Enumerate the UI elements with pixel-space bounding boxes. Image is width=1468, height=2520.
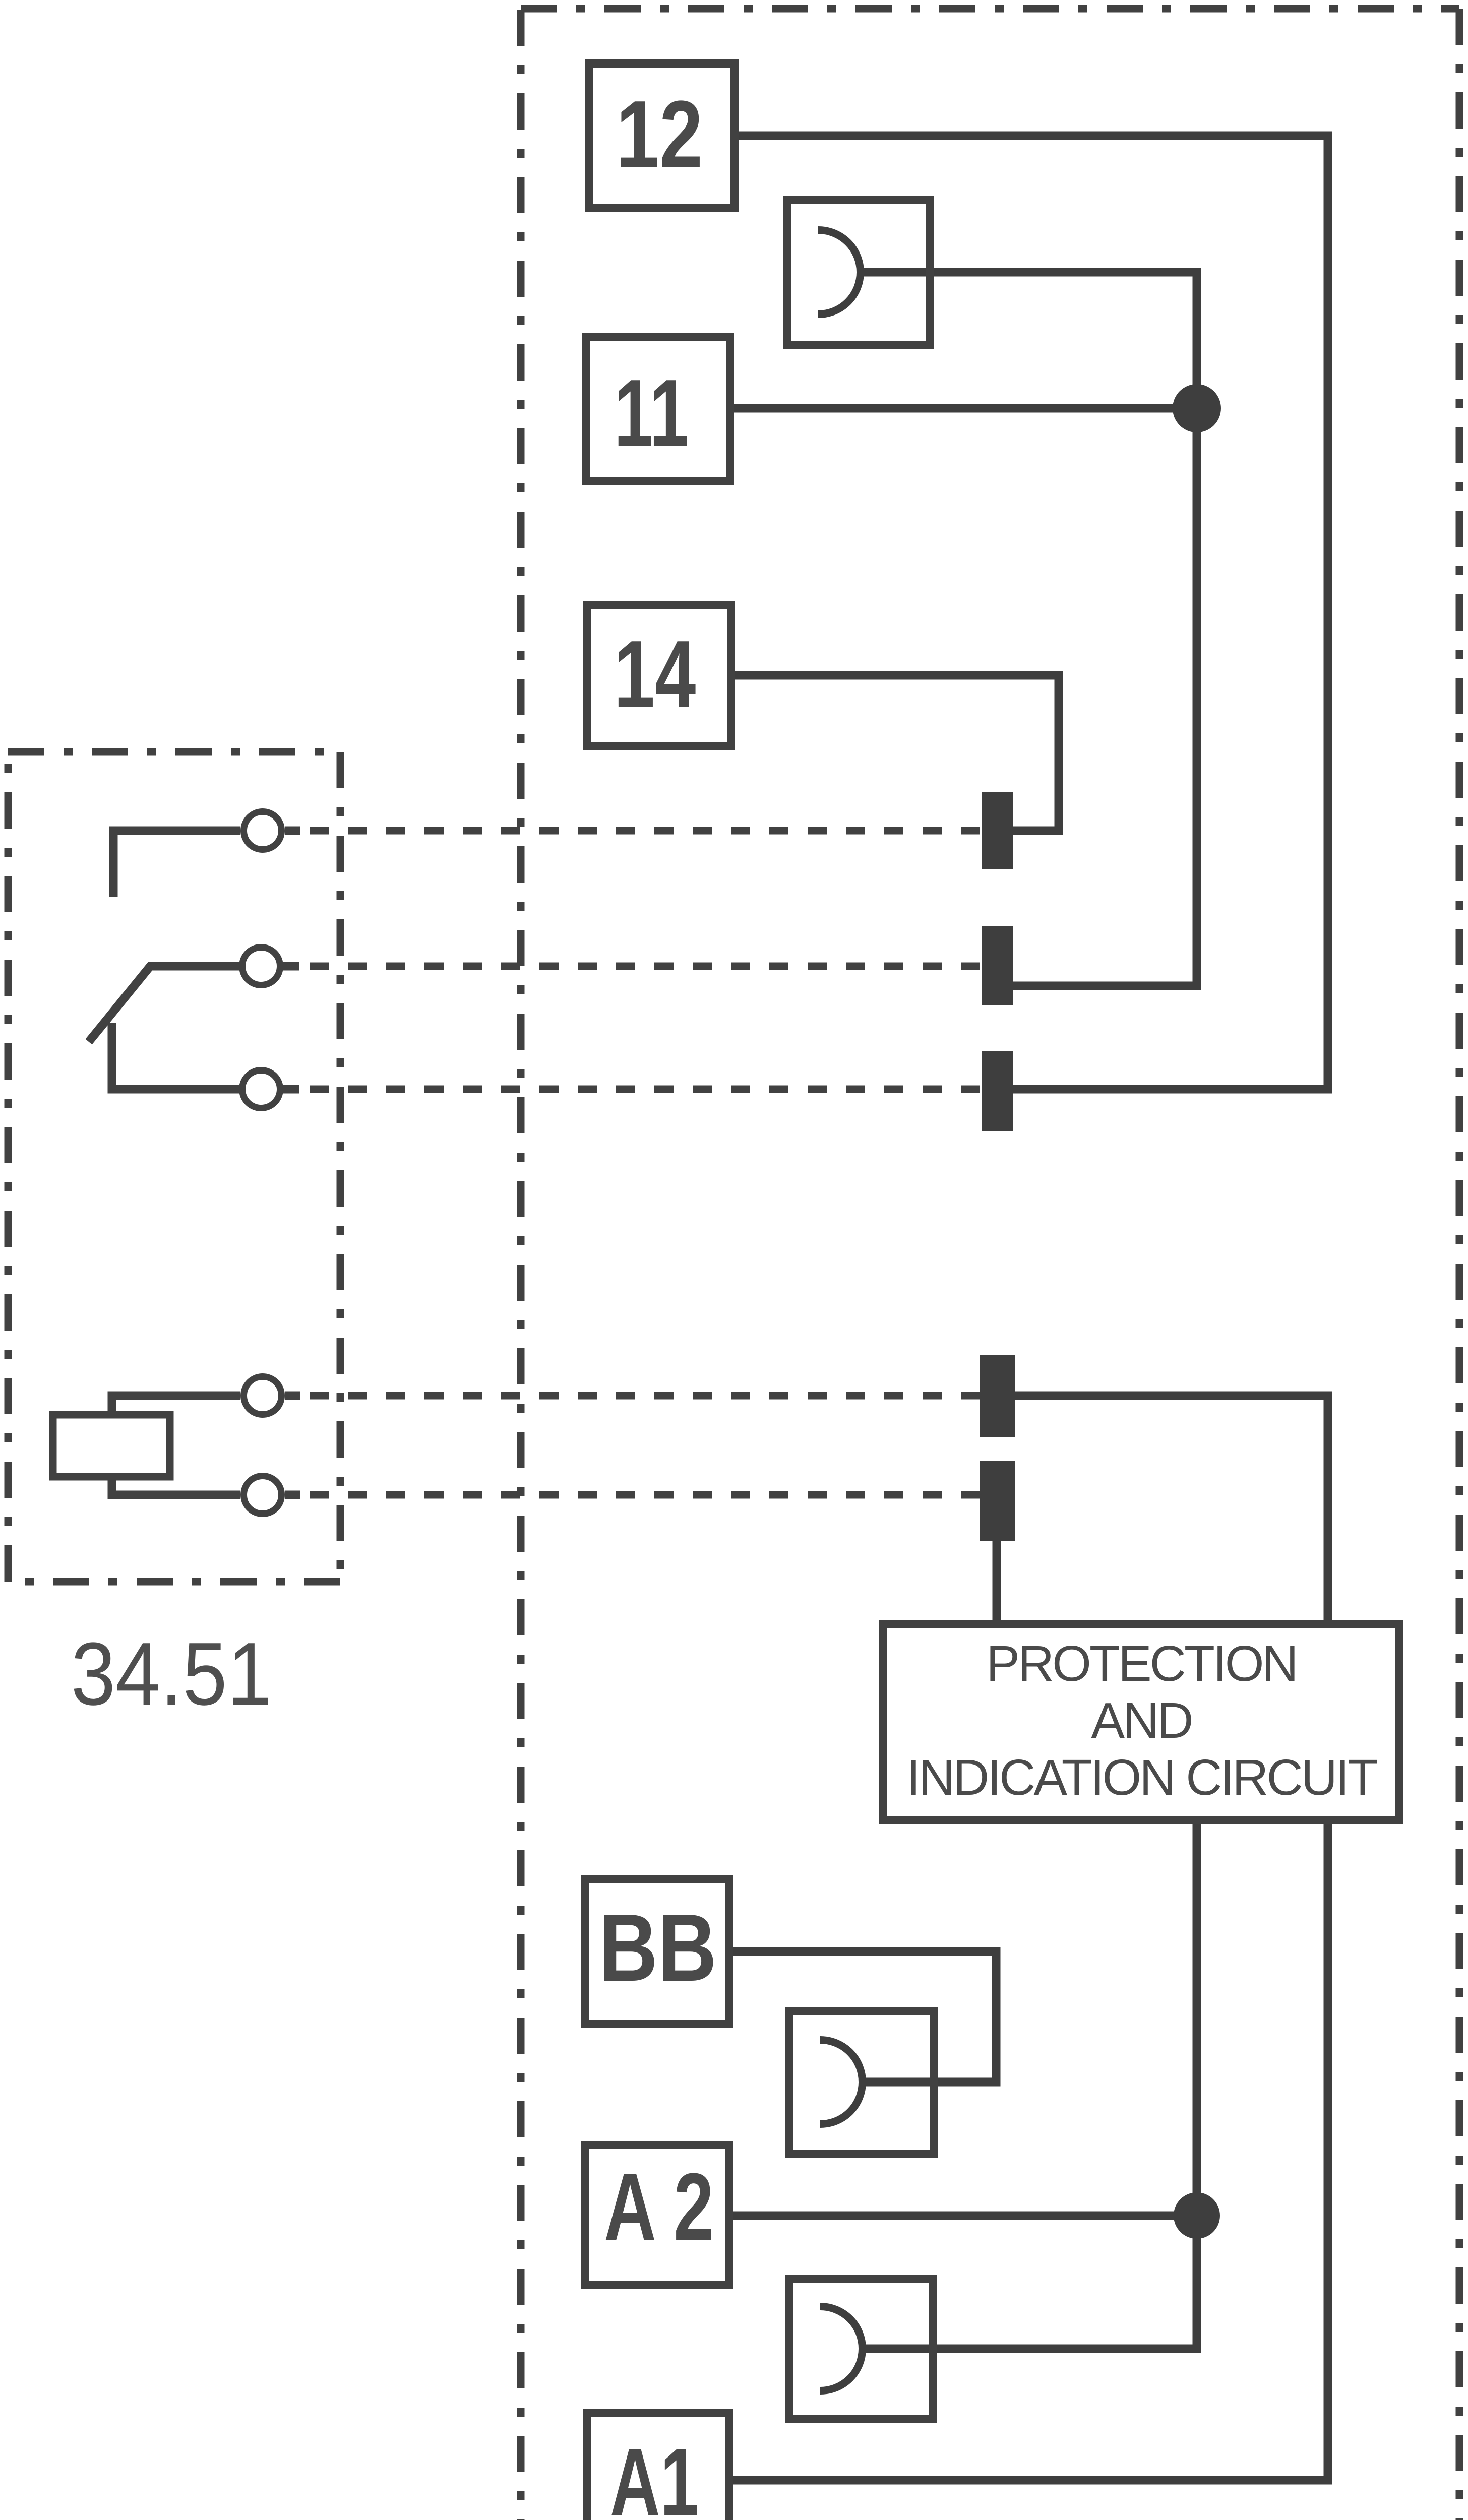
- socket outline 93.64 (dash-dot border): [521, 9, 1459, 2520]
- svg-text:12: 12: [616, 81, 703, 188]
- socket pin 2: [982, 926, 1013, 1005]
- node junction A2: [1174, 2192, 1220, 2239]
- terminal box A1: [587, 2413, 729, 2520]
- relay contact terminal 3 (pole): [112, 1023, 299, 1108]
- dashed link line contact 11: [308, 963, 980, 970]
- svg-text:14: 14: [614, 621, 696, 728]
- dashed link line coil top: [308, 1392, 980, 1400]
- relay outline 34.51 (dash-dot border): [8, 752, 340, 1582]
- indicator 3 box: [789, 2279, 933, 2419]
- wire BB to indicator 2: [729, 1951, 996, 2082]
- terminal box BB: [585, 1879, 729, 2024]
- terminal box A2: [585, 2145, 729, 2285]
- svg-text:BB: BB: [599, 1895, 717, 2001]
- dashed link line contact 12: [308, 827, 980, 835]
- terminal box 14: [587, 605, 731, 746]
- wire pin 4 to protection circuit: [1013, 1396, 1328, 1624]
- indicator 2 box: [789, 2011, 934, 2154]
- protection and indication circuit box: [883, 1624, 1399, 1820]
- terminal box 11: [586, 337, 730, 481]
- wire protection circuit to indicator 3: [863, 1820, 1197, 2349]
- node junction 11/indicator: [1173, 384, 1221, 432]
- svg-text:A 2: A 2: [604, 2153, 714, 2260]
- relay coil terminal top: [112, 1377, 300, 1417]
- socket pin 3: [982, 1051, 1013, 1131]
- socket pin 4: [980, 1355, 1015, 1437]
- indicator 1 box: [787, 200, 930, 345]
- svg-text:A1: A1: [610, 2429, 699, 2520]
- relay contact terminal 2 (moving arm): [89, 948, 299, 1042]
- wire pin 5 to protection circuit: [993, 1540, 1001, 1624]
- wire indicator 1 to pin 2: [861, 272, 1197, 986]
- svg-text:INDICATION CIRCUIT: INDICATION CIRCUIT: [906, 1749, 1377, 1806]
- relay coil: [53, 1415, 170, 1477]
- socket pin 5: [980, 1461, 1015, 1541]
- svg-text:11: 11: [614, 360, 689, 467]
- wire protection circuit to A1: [729, 1820, 1328, 2480]
- terminal box 12: [589, 64, 735, 208]
- wire 14 to pin 1: [731, 675, 1059, 831]
- svg-text:34.51: 34.51: [71, 1624, 272, 1724]
- svg-text:PROTECTION: PROTECTION: [986, 1635, 1297, 1692]
- relay coil terminal bottom: [112, 1475, 300, 1514]
- wire A2 to node: [729, 2212, 1197, 2220]
- socket pin 1: [982, 792, 1013, 869]
- wire 11 to node: [730, 404, 1197, 413]
- relay contact terminal 1 (NC): [113, 812, 300, 898]
- wire 12 to pin 3: [735, 136, 1328, 1089]
- svg-text:AND: AND: [1091, 1692, 1191, 1749]
- dashed link line contact 14: [308, 1086, 980, 1093]
- dashed link line coil bottom: [308, 1491, 980, 1499]
